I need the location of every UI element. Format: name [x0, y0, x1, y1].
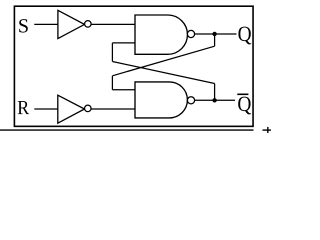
plus mark (crop artifact)	[263, 129, 272, 131]
wire U1 out to NAND1	[91, 23, 135, 25]
wire diagonal from Q net to V2	[112, 46, 214, 76]
wire R input	[34, 108, 58, 110]
label S	[19, 19, 28, 32]
junction node Qbar	[212, 98, 216, 102]
label Q	[238, 27, 251, 45]
wire vertical V2	[111, 76, 113, 90]
wire vertical V1	[111, 43, 113, 62]
label Q-bar	[238, 97, 251, 115]
junction node Q	[212, 32, 216, 36]
wire U2 out to NAND2	[91, 108, 135, 110]
wire diagonal from Qbar net to V1	[112, 62, 214, 84]
border frame	[14, 6, 253, 126]
wire NAND1 lower input horizontal	[112, 42, 135, 44]
inverter U2 (R)	[58, 95, 85, 123]
nand gate U4 (bottom)	[135, 82, 187, 118]
wire vertical down to Qbar junction	[214, 84, 216, 101]
wire vertical from Q junction	[214, 34, 216, 46]
inverter U1 (S)	[58, 10, 85, 38]
bottom rule line	[0, 129, 254, 131]
wire NAND1 out to Q	[195, 33, 237, 35]
wire NAND2 upper input horizontal	[112, 89, 135, 91]
wire S input	[34, 23, 58, 25]
wire NAND2 out to Qbar	[195, 99, 235, 101]
label R	[18, 101, 29, 114]
nand gate U3 (top)	[135, 15, 187, 54]
